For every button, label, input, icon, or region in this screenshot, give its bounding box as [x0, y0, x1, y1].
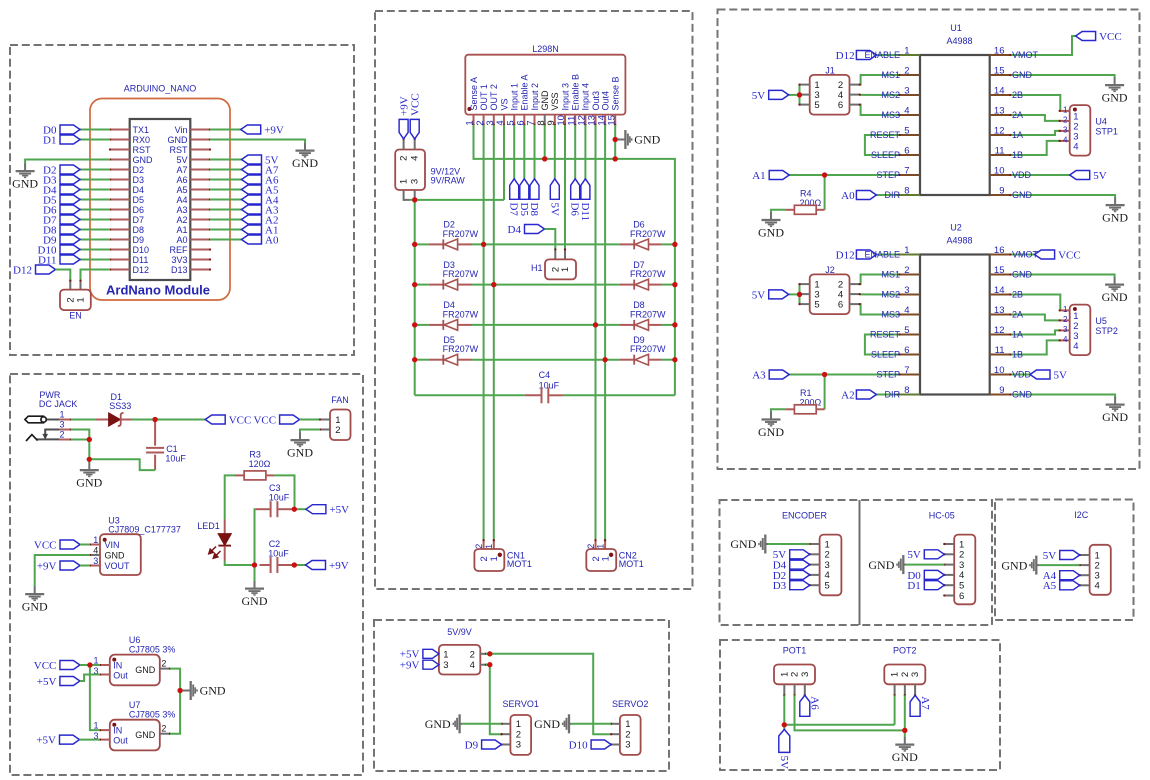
pin D9 (left 12) — [110, 239, 130, 241]
svg-text:2: 2 — [161, 659, 166, 669]
pin 5 hc05 — [944, 584, 954, 586]
svg-text:D1: D1 — [907, 580, 920, 592]
wire gnd pot — [904, 730, 906, 737]
wire row D2 — [415, 243, 429, 245]
wire over enable stub — [900, 54, 921, 56]
svg-text:+5V: +5V — [329, 504, 349, 516]
wire over dir stub — [900, 194, 921, 196]
svg-text:IN: IN — [113, 725, 122, 735]
ground u3 — [34, 587, 36, 594]
svg-text:3: 3 — [443, 660, 448, 671]
svg-text:6: 6 — [959, 591, 964, 602]
svg-text:A6: A6 — [809, 696, 821, 710]
wire A6 — [210, 179, 242, 181]
pin 6 SLEEP U1 — [900, 154, 921, 156]
wire vcc u3 — [80, 544, 90, 546]
flag VCC vmot — [1035, 250, 1055, 259]
svg-text:DIR: DIR — [885, 390, 901, 400]
junction — [252, 562, 257, 567]
svg-text:C3: C3 — [269, 483, 281, 493]
svg-text:FR207W: FR207W — [630, 269, 666, 279]
wire pin6 — [523, 125, 525, 179]
pin Out U6 — [100, 674, 110, 676]
svg-text:MS3: MS3 — [881, 110, 900, 120]
junction dots overlay — [153, 417, 158, 422]
pin RST (left 3) — [110, 149, 130, 151]
svg-text:+9V: +9V — [264, 124, 284, 136]
pin J right 2 — [850, 84, 860, 86]
flag +9V sel — [423, 660, 439, 669]
svg-text:RX0: RX0 — [133, 135, 151, 145]
svg-text:D9: D9 — [465, 739, 479, 751]
divider line — [859, 500, 861, 625]
flag A6 pot1 — [800, 695, 810, 716]
svg-text:11: 11 — [995, 146, 1005, 157]
svg-text:EN: EN — [69, 311, 82, 321]
pin J right 2 — [850, 283, 860, 285]
svg-text:3: 3 — [800, 672, 811, 677]
connector CN2 MOT1 — [595, 540, 597, 549]
pin GND (left 4) — [110, 159, 130, 161]
junction — [412, 197, 417, 202]
svg-text:GND: GND — [200, 684, 226, 698]
pin 2 STP2 — [1060, 319, 1070, 321]
svg-text:D3: D3 — [773, 580, 787, 592]
pin 1 STP1 — [1060, 110, 1070, 112]
svg-text:STP2: STP2 — [1095, 326, 1118, 336]
pin A5 (right) — [190, 189, 210, 191]
svg-text:POT2: POT2 — [893, 646, 917, 656]
wire pin5 — [513, 125, 515, 179]
pin J right 4 — [850, 293, 860, 295]
svg-text:3V3: 3V3 — [171, 255, 187, 265]
svg-text:5: 5 — [814, 300, 819, 311]
flag A0 — [242, 235, 262, 244]
svg-text:GND: GND — [634, 133, 660, 147]
svg-text:MOT1: MOT1 — [619, 559, 644, 569]
pin D10 (left 13) — [110, 249, 130, 251]
wire pot1 pin2 — [795, 695, 905, 730]
pin D3 (left 6) — [110, 179, 130, 181]
svg-text:FR207W: FR207W — [443, 269, 479, 279]
svg-text:U5: U5 — [1095, 316, 1107, 326]
svg-text:6: 6 — [904, 146, 909, 157]
svg-text:GND: GND — [540, 90, 550, 111]
wire GND left — [25, 160, 110, 165]
svg-text:4: 4 — [410, 156, 421, 161]
pin 1 POT1 — [783, 684, 785, 695]
wire ms2 — [860, 293, 900, 295]
wire 1a — [1010, 330, 1059, 334]
svg-text:1B: 1B — [1012, 350, 1023, 360]
svg-text:2: 2 — [586, 544, 596, 549]
wire pin3 out2 — [493, 125, 495, 540]
pin D8 (left 11) — [110, 229, 130, 231]
svg-text:GND: GND — [758, 425, 784, 439]
pin 2 POT1 — [794, 684, 796, 695]
svg-text:VSS: VSS — [550, 92, 560, 110]
svg-text:SS33: SS33 — [109, 401, 131, 411]
junction — [902, 728, 907, 733]
wire R3 left — [225, 475, 235, 519]
wire dir — [876, 194, 899, 196]
ground encoder — [766, 543, 768, 545]
svg-text:1: 1 — [601, 556, 612, 561]
svg-text:7: 7 — [904, 365, 909, 376]
flag +5V u7 — [60, 735, 80, 744]
svg-text:STEP: STEP — [876, 170, 900, 180]
pin 2 encoder — [810, 553, 820, 555]
wire pin13 — [595, 125, 597, 540]
flag D12 en — [856, 250, 876, 259]
svg-text:14: 14 — [994, 86, 1005, 97]
svg-text:U6: U6 — [129, 635, 141, 645]
pin 3V3 (right) — [190, 259, 210, 261]
pin 2 MS1 U2 — [900, 274, 921, 276]
section frame L298N — [375, 11, 693, 589]
svg-text:A0: A0 — [265, 234, 279, 246]
wire down to gnd node — [88, 440, 90, 464]
pin A2 (right) — [190, 219, 210, 221]
pin 1 STP2 — [1060, 309, 1070, 311]
wire D7 — [80, 219, 110, 221]
wire sel2 to servo2 — [486, 654, 610, 734]
wire row right 0 — [662, 243, 675, 245]
ground pin15 — [1114, 277, 1116, 284]
svg-text:7: 7 — [904, 166, 909, 177]
svg-text:VCC: VCC — [253, 414, 276, 426]
svg-text:RST: RST — [170, 145, 189, 155]
pin 2 jack — [60, 439, 71, 441]
svg-text:L298N: L298N — [532, 44, 559, 54]
flag D7 hang — [510, 179, 519, 200]
svg-text:GND: GND — [1102, 91, 1128, 105]
wire C1 return — [89, 459, 155, 470]
svg-text:3: 3 — [910, 672, 921, 677]
svg-text:6: 6 — [838, 300, 843, 311]
ground fan — [299, 433, 301, 440]
wire gnd SERVO1 — [462, 723, 501, 725]
connector I2C — [1090, 545, 1111, 595]
pin 16 VMOT U2 — [990, 254, 1011, 256]
flag A1 — [769, 171, 789, 180]
svg-text:2A: 2A — [1012, 110, 1023, 120]
wire row mid 3 — [472, 359, 620, 361]
pin 3 OUT 2 L298N — [493, 115, 495, 125]
pin 1 hc05 — [944, 543, 954, 545]
svg-text:VDD: VDD — [1012, 170, 1032, 180]
pin 1 jack — [60, 419, 71, 421]
svg-text:2: 2 — [399, 156, 410, 161]
svg-text:D12: D12 — [836, 249, 855, 261]
junction — [412, 357, 417, 362]
svg-text:D10: D10 — [569, 739, 588, 751]
module ARDUINO_NANO outline — [90, 99, 230, 301]
svg-text:2: 2 — [335, 425, 340, 436]
pin 4 MS3 U1 — [900, 114, 921, 116]
wire pin11 — [574, 125, 576, 179]
section frame POWER — [10, 374, 363, 775]
pin GND U7 — [160, 733, 170, 735]
svg-text:200Ω: 200Ω — [800, 397, 822, 407]
flag VCC vmot — [1076, 32, 1096, 41]
pin J left 5 — [800, 104, 810, 106]
svg-text:MOT1: MOT1 — [507, 559, 532, 569]
flag D8 hang — [530, 179, 539, 200]
pin A0 (right) — [190, 239, 210, 241]
svg-text:1: 1 — [59, 410, 64, 420]
wire enable — [876, 54, 899, 56]
svg-text:Vin: Vin — [175, 125, 188, 135]
pin1 jog — [404, 190, 410, 200]
svg-text:FR207W: FR207W — [443, 309, 479, 319]
svg-text:STP1: STP1 — [1095, 127, 1118, 137]
svg-text:3: 3 — [410, 179, 421, 184]
svg-text:MS2: MS2 — [881, 90, 900, 100]
pin 9 VSS L298N — [554, 115, 556, 125]
wire A4 — [210, 199, 242, 201]
pin 1 i2c — [1080, 554, 1090, 556]
svg-text:Input 2: Input 2 — [530, 83, 540, 111]
wire gnd SERVO2 — [572, 723, 611, 725]
wire D0-TX1 — [80, 129, 110, 131]
pin 3 hc05 — [944, 564, 954, 566]
wire row mid 2 — [472, 324, 620, 326]
wire pin4 VS — [503, 125, 505, 200]
svg-text:5V: 5V — [1093, 170, 1107, 182]
junction — [491, 282, 496, 287]
flag D11 hang — [581, 179, 590, 200]
pin 1 Sense A L298N — [473, 115, 475, 125]
junction — [542, 156, 547, 161]
section frame I2C — [995, 500, 1134, 621]
svg-text:5: 5 — [825, 581, 830, 592]
svg-text:5V: 5V — [1054, 369, 1068, 381]
svg-text:VS: VS — [499, 98, 509, 110]
wire r left — [771, 409, 785, 412]
flag D3 — [60, 175, 80, 184]
ground pwr — [88, 463, 90, 470]
wire reset-sleep — [865, 335, 900, 355]
svg-text:11: 11 — [995, 345, 1005, 356]
ground SERVO2 — [570, 723, 572, 725]
pin 14 2B U2 — [990, 294, 1011, 296]
junction — [87, 457, 92, 462]
svg-text:4: 4 — [1073, 341, 1078, 352]
svg-text:D4: D4 — [508, 224, 522, 236]
svg-text:14: 14 — [994, 285, 1005, 296]
ic L298N body — [465, 55, 625, 115]
pin 15 Sense B L298N — [614, 115, 616, 125]
pin GND U6 — [160, 668, 170, 670]
svg-text:SLEEP: SLEEP — [871, 150, 900, 160]
svg-text:2: 2 — [470, 649, 475, 660]
wire A3 — [210, 209, 242, 211]
svg-text:D11: D11 — [579, 203, 591, 222]
pin GND (right) — [190, 139, 210, 141]
pin 11 Enable B L298N — [574, 115, 576, 125]
flag A3 — [769, 370, 789, 379]
junction — [412, 322, 417, 327]
wire FAN2 gnd — [300, 430, 320, 434]
svg-text:GND: GND — [758, 225, 784, 239]
svg-text:C4: C4 — [539, 370, 551, 380]
wire vmot — [1010, 254, 1034, 256]
junction — [613, 156, 618, 161]
flag VCC power — [205, 415, 225, 424]
pin 1 encoder — [810, 543, 820, 545]
svg-text:+9V: +9V — [400, 660, 420, 672]
junction — [87, 662, 92, 667]
svg-text:+9V: +9V — [37, 560, 57, 572]
svg-text:FAN: FAN — [331, 395, 349, 405]
wire r right — [824, 175, 826, 210]
svg-text:5V/9V: 5V/9V — [447, 627, 472, 637]
svg-text:VCC: VCC — [410, 93, 422, 116]
svg-text:1: 1 — [76, 297, 87, 302]
wire node up C3 — [255, 509, 257, 565]
junction — [178, 688, 183, 693]
wire dir — [876, 394, 899, 396]
svg-text:U2: U2 — [950, 223, 962, 233]
svg-text:1: 1 — [1063, 106, 1068, 115]
pin 13 2A U2 — [990, 314, 1011, 316]
junction — [797, 292, 802, 297]
wire D1 to VCC — [132, 419, 206, 421]
flag +5V sel — [423, 649, 439, 658]
flag D0 — [60, 125, 80, 134]
pin 13 2A U1 — [990, 114, 1011, 116]
pin D7 (left 10) — [110, 219, 130, 221]
svg-text:STEP: STEP — [876, 370, 900, 380]
svg-text:D11: D11 — [133, 255, 149, 265]
pin 3 POT2 — [914, 684, 916, 695]
pin 8 DIR U1 — [900, 194, 921, 196]
pin 12 Input 4 L298N — [584, 115, 586, 125]
section frame POT — [720, 640, 1000, 770]
ic U1 body — [920, 55, 990, 195]
flag 5V i2c — [1060, 551, 1080, 560]
svg-text:VCC: VCC — [1099, 31, 1122, 43]
wire +5v u6 — [80, 675, 100, 682]
svg-text:GND: GND — [1012, 270, 1033, 280]
svg-text:Sense A: Sense A — [469, 77, 479, 111]
svg-text:VMOT: VMOT — [1012, 50, 1039, 60]
svg-text:A2: A2 — [841, 389, 854, 401]
wire enable — [876, 254, 899, 256]
svg-text:A6: A6 — [176, 175, 187, 185]
svg-text:2B: 2B — [1012, 90, 1023, 100]
svg-text:A0: A0 — [841, 190, 855, 202]
ground led — [254, 581, 256, 588]
flag VCC u6 — [60, 661, 80, 670]
wire D1-RX0 — [80, 139, 110, 141]
svg-text:3: 3 — [1063, 325, 1068, 334]
svg-text:5V: 5V — [548, 203, 560, 217]
svg-text:D9: D9 — [133, 235, 145, 245]
svg-text:15: 15 — [606, 115, 617, 126]
svg-text:5V: 5V — [752, 289, 766, 301]
svg-text:15: 15 — [994, 66, 1005, 77]
junction — [593, 322, 598, 327]
pin 10 VDD U1 — [990, 174, 1011, 176]
wire 2a — [1010, 115, 1059, 121]
svg-text:2A: 2A — [1012, 310, 1023, 320]
svg-text:D8: D8 — [133, 225, 145, 235]
svg-text:Enable B: Enable B — [571, 74, 581, 111]
flag 5V hc — [924, 550, 944, 559]
wire pin10 to H1 — [564, 125, 566, 250]
pin J right 6 — [850, 104, 860, 106]
ground SERVO1 — [460, 723, 462, 725]
svg-text:GND: GND — [242, 594, 268, 608]
wire row D3 — [415, 284, 429, 286]
flag VCC fan — [280, 415, 300, 424]
svg-text:MS2: MS2 — [881, 290, 900, 300]
wire jack1 to D1 — [71, 419, 95, 421]
svg-text:1: 1 — [443, 649, 448, 660]
svg-text:1: 1 — [399, 179, 410, 184]
svg-text:1: 1 — [625, 719, 630, 730]
svg-text:1: 1 — [484, 544, 494, 549]
svg-text:ArdNano Module: ArdNano Module — [106, 283, 210, 298]
wire vmot — [1010, 36, 1075, 55]
pin 3 jack — [60, 429, 71, 431]
wire pot2 pin1 — [894, 695, 896, 725]
wire pin8 gnd — [544, 125, 546, 159]
wire 1b — [1010, 340, 1059, 354]
pin 7 Input 2 L298N — [534, 115, 536, 125]
ic U2 body — [920, 255, 990, 395]
svg-text:120Ω: 120Ω — [249, 459, 271, 469]
svg-text:+5V: +5V — [36, 735, 56, 747]
wire over dir stub — [900, 394, 921, 396]
svg-text:Input 3: Input 3 — [560, 83, 570, 111]
junction — [153, 417, 158, 422]
ground u6u7 — [182, 690, 190, 692]
wire jack2 — [71, 439, 90, 441]
wire 5v j — [789, 94, 800, 96]
junction — [292, 562, 297, 567]
flag A6 — [242, 175, 262, 184]
wire pin9 — [554, 125, 556, 179]
connector STP2 — [1070, 305, 1091, 356]
svg-text:ARDUINO_NANO: ARDUINO_NANO — [124, 84, 197, 94]
svg-text:2B: 2B — [1012, 290, 1023, 300]
svg-text:9: 9 — [999, 385, 1004, 396]
svg-text:A4988: A4988 — [946, 236, 972, 246]
pin J left 3 — [800, 94, 810, 96]
svg-text:H1: H1 — [531, 263, 543, 273]
pin D4 (left 7) — [110, 189, 130, 191]
flag D10 — [60, 245, 80, 254]
svg-text:VDD: VDD — [1012, 370, 1032, 380]
flag A2 — [242, 215, 262, 224]
junction — [613, 137, 618, 142]
flag D9 — [60, 235, 80, 244]
svg-text:GND: GND — [76, 476, 102, 490]
pin 4 i2c — [1080, 584, 1090, 586]
pin 2 POT2 — [904, 684, 906, 695]
svg-text:U4: U4 — [1095, 117, 1107, 127]
wire 2b — [1010, 295, 1060, 311]
wire c4 right — [564, 394, 675, 396]
svg-text:GND: GND — [105, 551, 126, 561]
wire ms3 — [860, 105, 900, 115]
pin 9 GND U2 — [990, 394, 1011, 396]
flag D1 hc — [924, 581, 944, 590]
flag D1 — [60, 135, 80, 144]
